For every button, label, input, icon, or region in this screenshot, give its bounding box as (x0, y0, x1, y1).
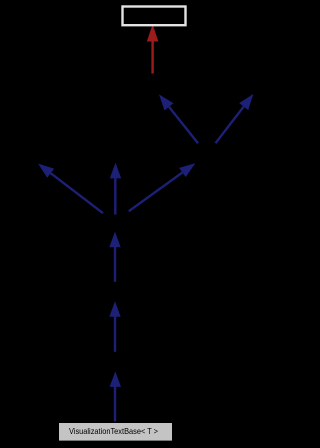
svg-text:VisualizationTextBase< T >: VisualizationTextBase< T > (69, 426, 158, 436)
